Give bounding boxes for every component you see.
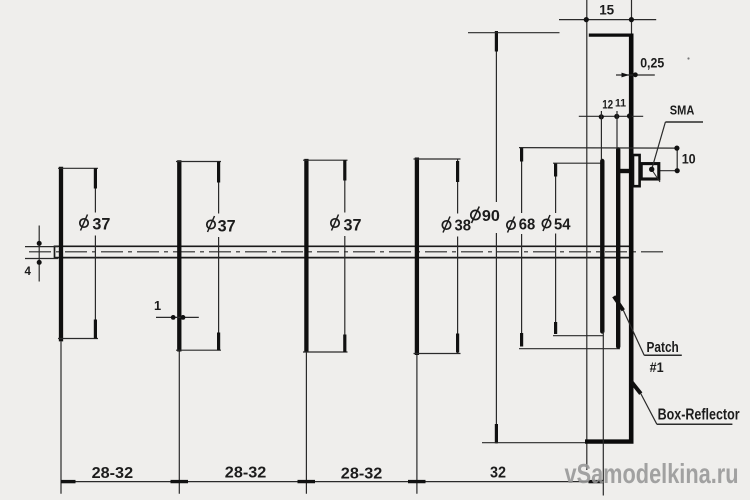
- svg-text:#1: #1: [650, 360, 664, 375]
- dia 54 dimension line: [553, 163, 604, 336]
- extension line from wall (x=631.5): [631, 0, 633, 34]
- label dia 68: [507, 217, 536, 234]
- SMA leader and label: [649, 103, 703, 182]
- dimension 0,25 (wall thickness): [616, 55, 665, 77]
- SMA feed pin: [619, 169, 630, 173]
- leader Patch #1: [614, 296, 682, 375]
- boom (4mm rod outline): [55, 246, 631, 259]
- label dia 90: [471, 207, 500, 225]
- svg-text:28-32: 28-32: [92, 465, 134, 482]
- svg-text:Box-Reflector: Box-Reflector: [658, 407, 740, 424]
- patch disc dia54 (x=602): [600, 161, 604, 332]
- dimension 1 (element thickness): [154, 298, 199, 320]
- svg-text:11: 11: [615, 97, 626, 109]
- svg-text:0,25: 0,25: [640, 55, 664, 70]
- extension line from top flange left edge (x=587): [586, 0, 588, 470]
- dimensions 12 / 11 (patch spacing): [579, 97, 643, 159]
- svg-text:12: 12: [602, 100, 613, 112]
- svg-text:28-32: 28-32: [225, 465, 267, 482]
- dimension 10 (SMA offset): [519, 146, 696, 174]
- svg-text:68: 68: [519, 217, 536, 234]
- extension lines down to bottom dimension: [60, 341, 62, 493]
- D4 diameter dimension line: [457, 159, 459, 214]
- svg-text:15: 15: [599, 3, 614, 18]
- box-reflector top flange: [589, 33, 634, 36]
- D1 extension lines: [58, 167, 98, 169]
- svg-text:37: 37: [344, 216, 362, 234]
- label dia 37 (D1): [80, 215, 111, 234]
- label dia 37 (D2): [207, 216, 236, 235]
- D2 diameter dimension line: [218, 162, 220, 214]
- D4 extension lines: [414, 158, 461, 160]
- director D3: [304, 159, 308, 352]
- svg-text:37: 37: [92, 215, 110, 233]
- box-reflector bottom flange: [585, 439, 634, 443]
- svg-text:1: 1: [154, 298, 161, 313]
- svg-text:90: 90: [482, 208, 500, 225]
- svg-text:54: 54: [554, 217, 571, 234]
- SMA barrel: [641, 164, 659, 179]
- D3 extension lines: [303, 159, 348, 161]
- svg-text:37: 37: [218, 217, 236, 235]
- bottom dimension ticks: [61, 480, 76, 483]
- svg-text:4: 4: [25, 266, 32, 278]
- svg-text:32: 32: [490, 464, 506, 481]
- director D2: [177, 160, 181, 351]
- label dia 37 (D3): [331, 215, 362, 235]
- stray mark: [687, 57, 689, 59]
- dimension 4 (boom diameter): [25, 226, 59, 282]
- box-reflector wall: [629, 34, 634, 444]
- director D4: [415, 158, 419, 356]
- svg-text:Patch: Patch: [647, 339, 679, 356]
- D2 extension lines: [176, 161, 221, 163]
- dia 68 dimension line: [519, 147, 620, 349]
- director D1: [59, 167, 63, 342]
- dia 90 dimension (box reflector diameter): [468, 31, 586, 443]
- label dia 54: [542, 215, 570, 234]
- D3 diameter dimension line: [344, 160, 346, 212]
- label dia 38 (D4): [442, 217, 471, 235]
- svg-text:SMA: SMA: [670, 103, 695, 118]
- patch #1 disc dia68 (x=618): [616, 150, 620, 347]
- svg-text:10: 10: [682, 151, 696, 167]
- svg-text:28-32: 28-32: [341, 466, 383, 483]
- dimension 15 (flange depth): [559, 3, 656, 23]
- SMA flange: [633, 155, 640, 186]
- leader Box-Reflector: [631, 381, 740, 424]
- bottom dimension line: [61, 481, 603, 483]
- centerline (boom axis, dash-dot): [29, 251, 666, 253]
- svg-text:38: 38: [455, 218, 472, 235]
- D1 diameter dimension line: [94, 168, 96, 212]
- svg-text:vSamodelkina.ru: vSamodelkina.ru: [565, 458, 739, 489]
